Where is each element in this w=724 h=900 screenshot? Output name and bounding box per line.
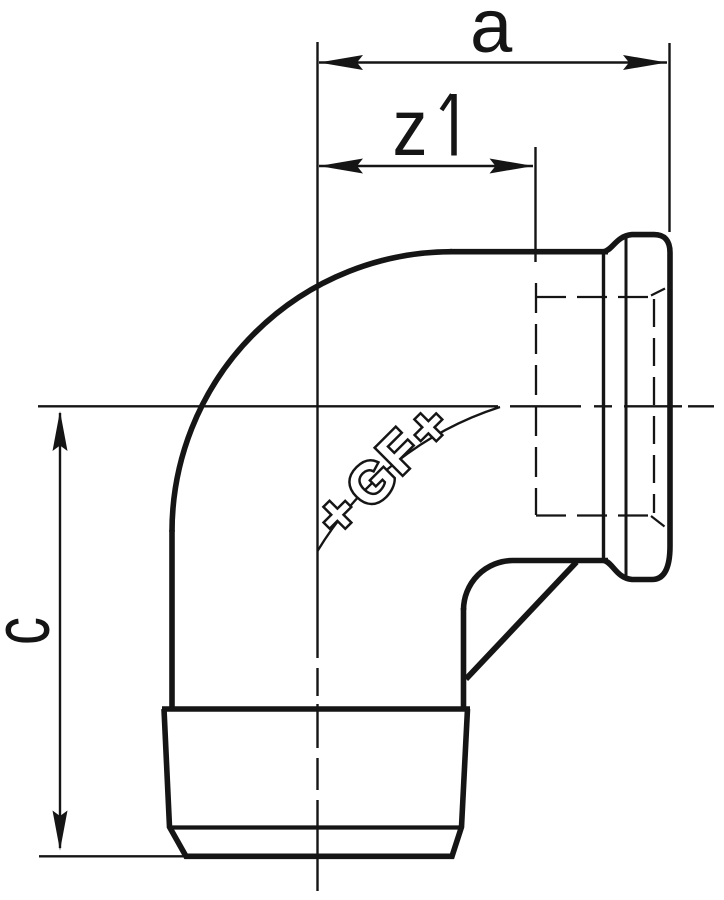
logo +GF+: [303, 393, 462, 548]
arrowhead z1 left: [319, 159, 363, 174]
wire top body line: [450, 249, 608, 255]
right socket bead outline: [604, 235, 670, 580]
svg-text:z: z: [393, 83, 428, 172]
dimension line z1: [319, 165, 533, 167]
dimension line a: [319, 61, 667, 63]
svg-text:a: a: [470, 0, 513, 69]
bottom socket bead top line: [162, 706, 470, 712]
inner corner fillet arc: [464, 561, 514, 611]
right socket mouth face line: [602, 251, 605, 562]
extension line c bottom: [39, 855, 186, 857]
arrowhead z1 right: [490, 159, 534, 174]
extension line z1 right: [534, 147, 536, 262]
vertical centerline: [316, 42, 318, 891]
hidden thread end vertical: [653, 299, 655, 513]
bend centerline curve: [318, 407, 501, 551]
right socket bead inner line: [625, 238, 628, 578]
extension line a right: [668, 43, 670, 232]
chamfer edge top: [651, 289, 665, 296]
arrowhead a left: [319, 55, 363, 70]
web rib diagonal: [466, 562, 577, 679]
bottom socket thread line: [168, 825, 462, 829]
arrowhead c bottom: [53, 811, 68, 851]
hidden thread top line: [536, 296, 651, 298]
hidden thread bottom line: [536, 514, 651, 516]
arrowhead a right: [623, 55, 667, 70]
wire left body vertical: [169, 530, 175, 709]
chamfer edge bottom: [651, 516, 665, 527]
elbow outer arc: [172, 252, 452, 532]
arrowhead c top: [53, 411, 68, 451]
horizontal centerline: [38, 405, 714, 407]
bottom socket bead sides chamfer and face: [164, 709, 468, 856]
dimension line c: [59, 413, 61, 848]
hidden thread depth vertical: [535, 283, 537, 515]
wire right socket bottom line: [513, 558, 608, 564]
svg-text:c: c: [0, 617, 66, 645]
wire bottom port right vertical: [461, 608, 467, 709]
